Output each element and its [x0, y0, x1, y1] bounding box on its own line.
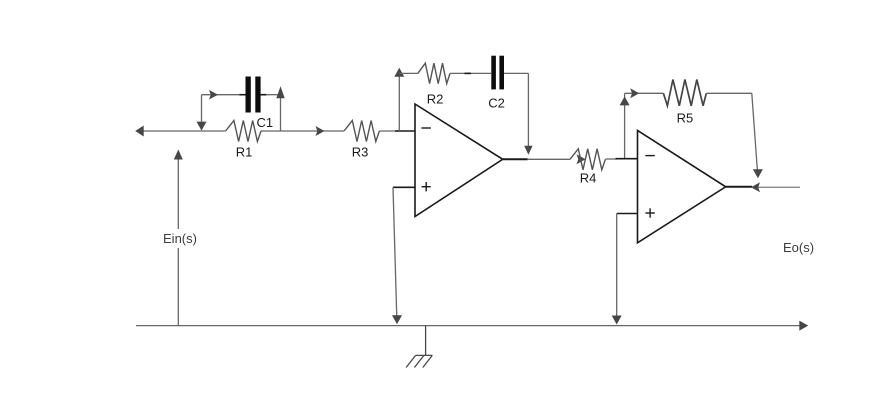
wire: U2 feedback top horizontal with right arrow	[625, 88, 664, 98]
wire: U1 feedback top horizontal to R2	[399, 72, 418, 74]
ground	[406, 326, 432, 368]
capacitor C1	[240, 77, 267, 113]
wire: C1 branch right horizontal and vertical drop with up arrow	[266, 86, 285, 131]
svg-text:R1: R1	[236, 145, 253, 160]
label Ein(s)	[161, 229, 199, 248]
svg-text:C2: C2	[488, 96, 505, 111]
svg-text:R3: R3	[352, 145, 369, 160]
resistor R5	[663, 80, 706, 106]
wire: U1 output to R4	[528, 158, 570, 160]
svg-text:R2: R2	[427, 92, 444, 107]
op-amp U1	[393, 104, 528, 217]
op-amp U2	[616, 130, 753, 242]
wire: R4 to U2 inverting input	[605, 158, 617, 160]
wire: U1 non-inverting input to ground rail with down arrow	[392, 187, 402, 324]
resistor R1	[226, 121, 261, 142]
svg-text:Eo(s): Eo(s)	[783, 240, 814, 255]
svg-text:C1: C1	[256, 115, 273, 130]
wire: C1 branch left vertical with down arrow	[197, 95, 207, 131]
wire: ground rail (bottom horizontal) with right arrow	[136, 321, 808, 331]
resistor R2	[418, 63, 450, 83]
svg-text:R5: R5	[677, 111, 694, 126]
capacitor C2	[465, 56, 505, 90]
wire: C1 branch top horizontal with right arrow	[202, 90, 241, 100]
wire: U2 output with left arrow	[751, 182, 800, 192]
resistor R4	[570, 149, 605, 170]
wire: R5 to U2 output slanted drop with down arrow	[706, 93, 763, 178]
resistor R3	[344, 121, 379, 142]
wire: Ein source reference vertical with up arrow	[174, 150, 183, 326]
svg-text:R4: R4	[580, 171, 597, 186]
wire: R2 to C2	[450, 72, 491, 74]
wire: U1 feedback riser with up arrow	[394, 68, 404, 131]
wire: C2 to U1 output vertical drop with down arrow	[504, 73, 533, 154]
wire: U2 feedback riser with up arrow	[620, 93, 630, 159]
wire: U2 non-inverting input to ground rail with down arrow	[612, 214, 622, 325]
wire: input net horizontal from left arrow to U1 inverting input, with direction arrow	[135, 126, 399, 137]
svg-text:Ein(s): Ein(s)	[163, 231, 197, 246]
arrowhead: signal direction at R4	[577, 154, 586, 164]
